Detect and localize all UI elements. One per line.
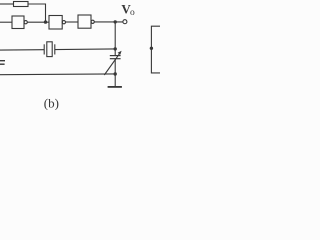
svg-text:(b): (b) xyxy=(44,95,59,110)
wire G2 output to G3 input xyxy=(66,21,79,23)
node junction bottom xyxy=(114,72,117,75)
wire bottom rail xyxy=(0,73,115,76)
wire capacitor to ground xyxy=(114,59,116,87)
svg-text:o: o xyxy=(130,8,135,18)
inverter G3 xyxy=(78,15,94,28)
inverter G2 xyxy=(49,16,66,30)
wire G1 output to G2 input xyxy=(27,21,49,23)
crystal Y1 xyxy=(44,42,55,57)
node junction output column xyxy=(114,20,117,23)
wire vertical output to crystal node xyxy=(114,22,116,56)
node junction feedback/output xyxy=(44,20,47,23)
variable capacitor C2 plates xyxy=(110,56,121,59)
wire crystal left xyxy=(0,49,44,51)
label Vo xyxy=(121,2,135,18)
wire top feedback right segment xyxy=(28,4,46,22)
capacitor C left cropped xyxy=(0,61,5,64)
wire top feedback left segment xyxy=(0,3,14,5)
inverter G1 xyxy=(12,16,27,29)
resistor R xyxy=(14,2,29,7)
wire G1 input xyxy=(0,21,12,23)
node junction right figure xyxy=(150,47,153,50)
ground xyxy=(108,86,122,88)
wire G3 output to Vo terminal xyxy=(94,21,123,23)
terminal Vo xyxy=(123,20,127,24)
wire cropped right figure xyxy=(151,26,160,73)
node junction crystal xyxy=(114,47,117,50)
wire crystal right xyxy=(55,48,115,51)
variable capacitor arrow xyxy=(104,51,121,75)
